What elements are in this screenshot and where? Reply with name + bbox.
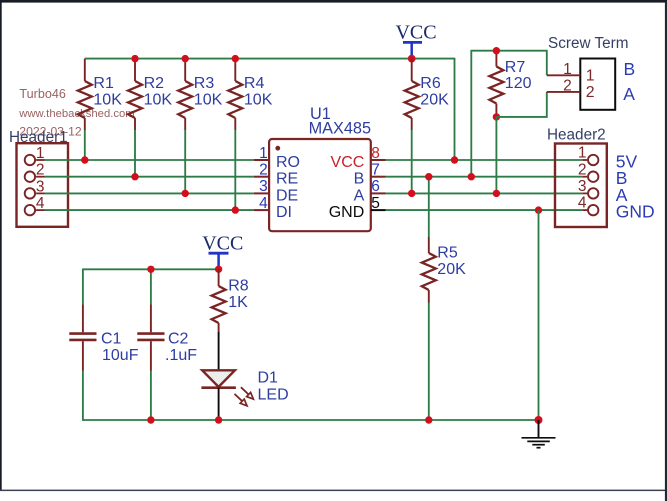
ground: [522, 420, 556, 448]
node junction R2/RE row: [131, 173, 138, 180]
svg-text:VCC: VCC: [331, 154, 365, 171]
Header2 pin 1 5V: [578, 145, 638, 172]
wire VCC top rail: [85, 58, 455, 60]
connector Header1: [9, 129, 68, 227]
svg-text:10uF: 10uF: [102, 347, 139, 364]
svg-text:LED: LED: [258, 387, 289, 404]
svg-text:3: 3: [36, 178, 45, 195]
wire R4 lead to row 4: [234, 130, 236, 210]
Screw Term pin 2: [547, 77, 595, 101]
svg-text:1K: 1K: [228, 294, 248, 311]
svg-text:6: 6: [371, 178, 380, 195]
svg-text:R2: R2: [144, 75, 165, 92]
Header1 pin 1: [25, 145, 45, 165]
svg-text:2: 2: [36, 162, 45, 179]
capacitor C1 10uF: [69, 305, 138, 371]
U1 pin 7 B: [354, 162, 386, 188]
resistor R7 120: [489, 51, 531, 117]
svg-text:5: 5: [371, 195, 380, 212]
svg-text:Screw Term: Screw Term: [548, 35, 628, 52]
svg-text:10K: 10K: [244, 92, 273, 109]
svg-text:R1: R1: [93, 75, 114, 92]
wire C1 branch top: [82, 269, 84, 305]
svg-text:R4: R4: [244, 75, 265, 92]
resistor R8 1K: [212, 269, 249, 332]
svg-text:20K: 20K: [437, 261, 466, 278]
node junction R7 top / B rail: [493, 47, 500, 54]
svg-text:A: A: [354, 187, 365, 204]
resistor R2 10K: [128, 59, 172, 130]
svg-text:2: 2: [563, 77, 572, 94]
node junction B row / B rail drop: [468, 173, 475, 180]
wire D1 to bottom rail (black): [218, 388, 220, 420]
svg-text:C2: C2: [168, 330, 189, 347]
wire C1 to bottom rail: [82, 371, 84, 421]
wire R3 lead to row 3: [184, 130, 186, 193]
svg-text:2: 2: [578, 161, 587, 178]
U1 pin 6 A: [354, 178, 386, 204]
svg-text:3: 3: [259, 178, 268, 195]
Header1 pin 2: [25, 162, 45, 182]
svg-text:R5: R5: [437, 245, 458, 262]
svg-text:R7: R7: [505, 59, 526, 76]
svg-text:2: 2: [586, 84, 595, 101]
wire R5 to bottom rail: [428, 303, 430, 421]
svg-text:VCC: VCC: [202, 232, 243, 254]
svg-text:Turbo46: Turbo46: [19, 87, 65, 101]
node junction R4/top rail: [232, 55, 239, 62]
node junction A row / R6: [408, 190, 415, 197]
svg-text:2: 2: [259, 162, 268, 179]
wire B rail drop to B row: [470, 50, 472, 177]
node junction VCC/R6/top rail: [408, 55, 416, 63]
svg-text:4: 4: [578, 195, 587, 212]
svg-text:1: 1: [36, 145, 45, 162]
svg-text:10K: 10K: [93, 92, 122, 109]
node junction A row / R7: [493, 190, 500, 197]
svg-text:3: 3: [578, 178, 587, 195]
node junction R7 bottom / A link: [493, 113, 500, 120]
power VCC bottom: [202, 232, 243, 269]
LED D1: [201, 370, 288, 406]
Screw Term pin 1: [547, 61, 595, 85]
node junction R3/top rail: [182, 55, 189, 62]
node junction GND row / ground drop: [535, 206, 542, 213]
svg-text:B: B: [624, 59, 636, 79]
node junction VCC2/R8: [215, 266, 222, 273]
node junction C2 bottom: [147, 416, 154, 423]
resistor R6 20K: [405, 59, 449, 130]
svg-text:A: A: [623, 84, 635, 104]
U1 pin 2 RE: [254, 162, 298, 188]
svg-text:GND: GND: [329, 204, 365, 221]
node junction ground: [535, 416, 543, 424]
svg-text:20K: 20K: [420, 92, 449, 109]
svg-text:DE: DE: [276, 187, 298, 204]
svg-text:4: 4: [259, 195, 268, 212]
node junction C2 top: [147, 266, 154, 273]
wire R2 lead to row 2: [134, 130, 136, 177]
svg-text:R8: R8: [228, 278, 249, 295]
U1 pin 4 DI: [254, 195, 292, 221]
svg-text:120: 120: [505, 75, 532, 92]
connector Screw Term: [548, 35, 628, 110]
capacitor C2 .1uF: [137, 305, 197, 371]
wire B rail top: [471, 50, 547, 52]
wire Header1 pin 3 to U1 pin 3: [45, 192, 254, 194]
wire Header1 pin 4 to U1 pin 4: [45, 209, 254, 211]
wire GND row to bottom rail: [538, 210, 540, 420]
wire B net U1 to Header2: [386, 176, 583, 178]
svg-text:1: 1: [578, 145, 587, 162]
U1 pin 1 RO: [254, 145, 300, 171]
wire C2 branch top: [150, 269, 152, 304]
node junction 5V row / rail drop: [451, 156, 458, 163]
Header1 pin 4: [25, 195, 45, 215]
node junction R5 bottom: [425, 416, 432, 423]
wire A net U1 to Header2: [386, 192, 583, 194]
svg-text:RE: RE: [276, 171, 298, 188]
svg-text:DI: DI: [276, 204, 292, 221]
svg-text:D1: D1: [258, 370, 279, 387]
wire Header1 pin 1 to U1 pin 1: [45, 159, 254, 161]
svg-text:1: 1: [259, 145, 268, 162]
node junction R2/top rail: [131, 55, 138, 62]
wire R6 to A row: [411, 130, 413, 193]
U1 pin 3 DE: [254, 178, 298, 204]
svg-text:RO: RO: [276, 154, 300, 171]
node junction R1/RO row: [81, 156, 88, 163]
wire R1 lead to row 1: [84, 130, 86, 160]
svg-text:B: B: [354, 171, 365, 188]
wire VCC rail drop to 5V row: [454, 58, 456, 160]
svg-text:VCC: VCC: [395, 22, 436, 44]
svg-text:R3: R3: [194, 75, 215, 92]
Header2 pin 2 B: [578, 161, 628, 188]
U1 pin 5 GND: [329, 195, 386, 221]
wire R7 bottom to screw pin 2 link: [496, 92, 546, 117]
Header2 pin 3 A: [578, 178, 628, 205]
wire Header1 pin 2 to U1 pin 2: [45, 176, 254, 178]
wire C2 to bottom rail: [150, 371, 152, 421]
Header1 pin 3: [25, 178, 45, 198]
svg-text:R6: R6: [420, 75, 441, 92]
Header2 pin 4 GND: [578, 195, 655, 222]
wire GND net U1 to Header2: [386, 209, 583, 211]
wire B rail to Screw pin 1: [546, 50, 548, 75]
connector Header2: [547, 126, 607, 227]
svg-text:Header2: Header2: [547, 126, 606, 143]
wire bottom rail: [83, 419, 539, 421]
svg-text:Header1: Header1: [9, 129, 68, 146]
svg-text:8: 8: [371, 145, 380, 162]
svg-text:7: 7: [371, 162, 380, 179]
wire R8 to D1 (black): [218, 332, 220, 370]
svg-text:GND: GND: [616, 202, 655, 222]
svg-text:10K: 10K: [194, 92, 223, 109]
node junction R4/DI row: [232, 206, 239, 213]
resistor R5 20K: [422, 177, 466, 303]
svg-text:10K: 10K: [144, 92, 173, 109]
svg-text:C1: C1: [101, 330, 122, 347]
node junction D1 bottom: [215, 416, 222, 423]
resistor R3 10K: [178, 59, 222, 130]
power VCC top: [395, 22, 436, 59]
wire R7 bottom to A row: [495, 117, 497, 193]
resistor R4 10K: [228, 59, 272, 130]
svg-text:.1uF: .1uF: [165, 347, 197, 364]
wire VCC2 rail: [83, 268, 219, 270]
svg-text:MAX485: MAX485: [309, 119, 371, 137]
node junction R3/DE row: [182, 190, 189, 197]
wire 5V net U1 to Header2: [386, 159, 583, 161]
U1 pin 8 VCC: [331, 145, 386, 171]
node junction B row / R5: [425, 173, 432, 180]
IC U1 MAX485: [269, 105, 371, 231]
svg-text:4: 4: [36, 195, 45, 212]
resistor R1 10K: [78, 59, 122, 130]
svg-text:1: 1: [586, 68, 595, 85]
svg-text:1: 1: [563, 61, 572, 78]
